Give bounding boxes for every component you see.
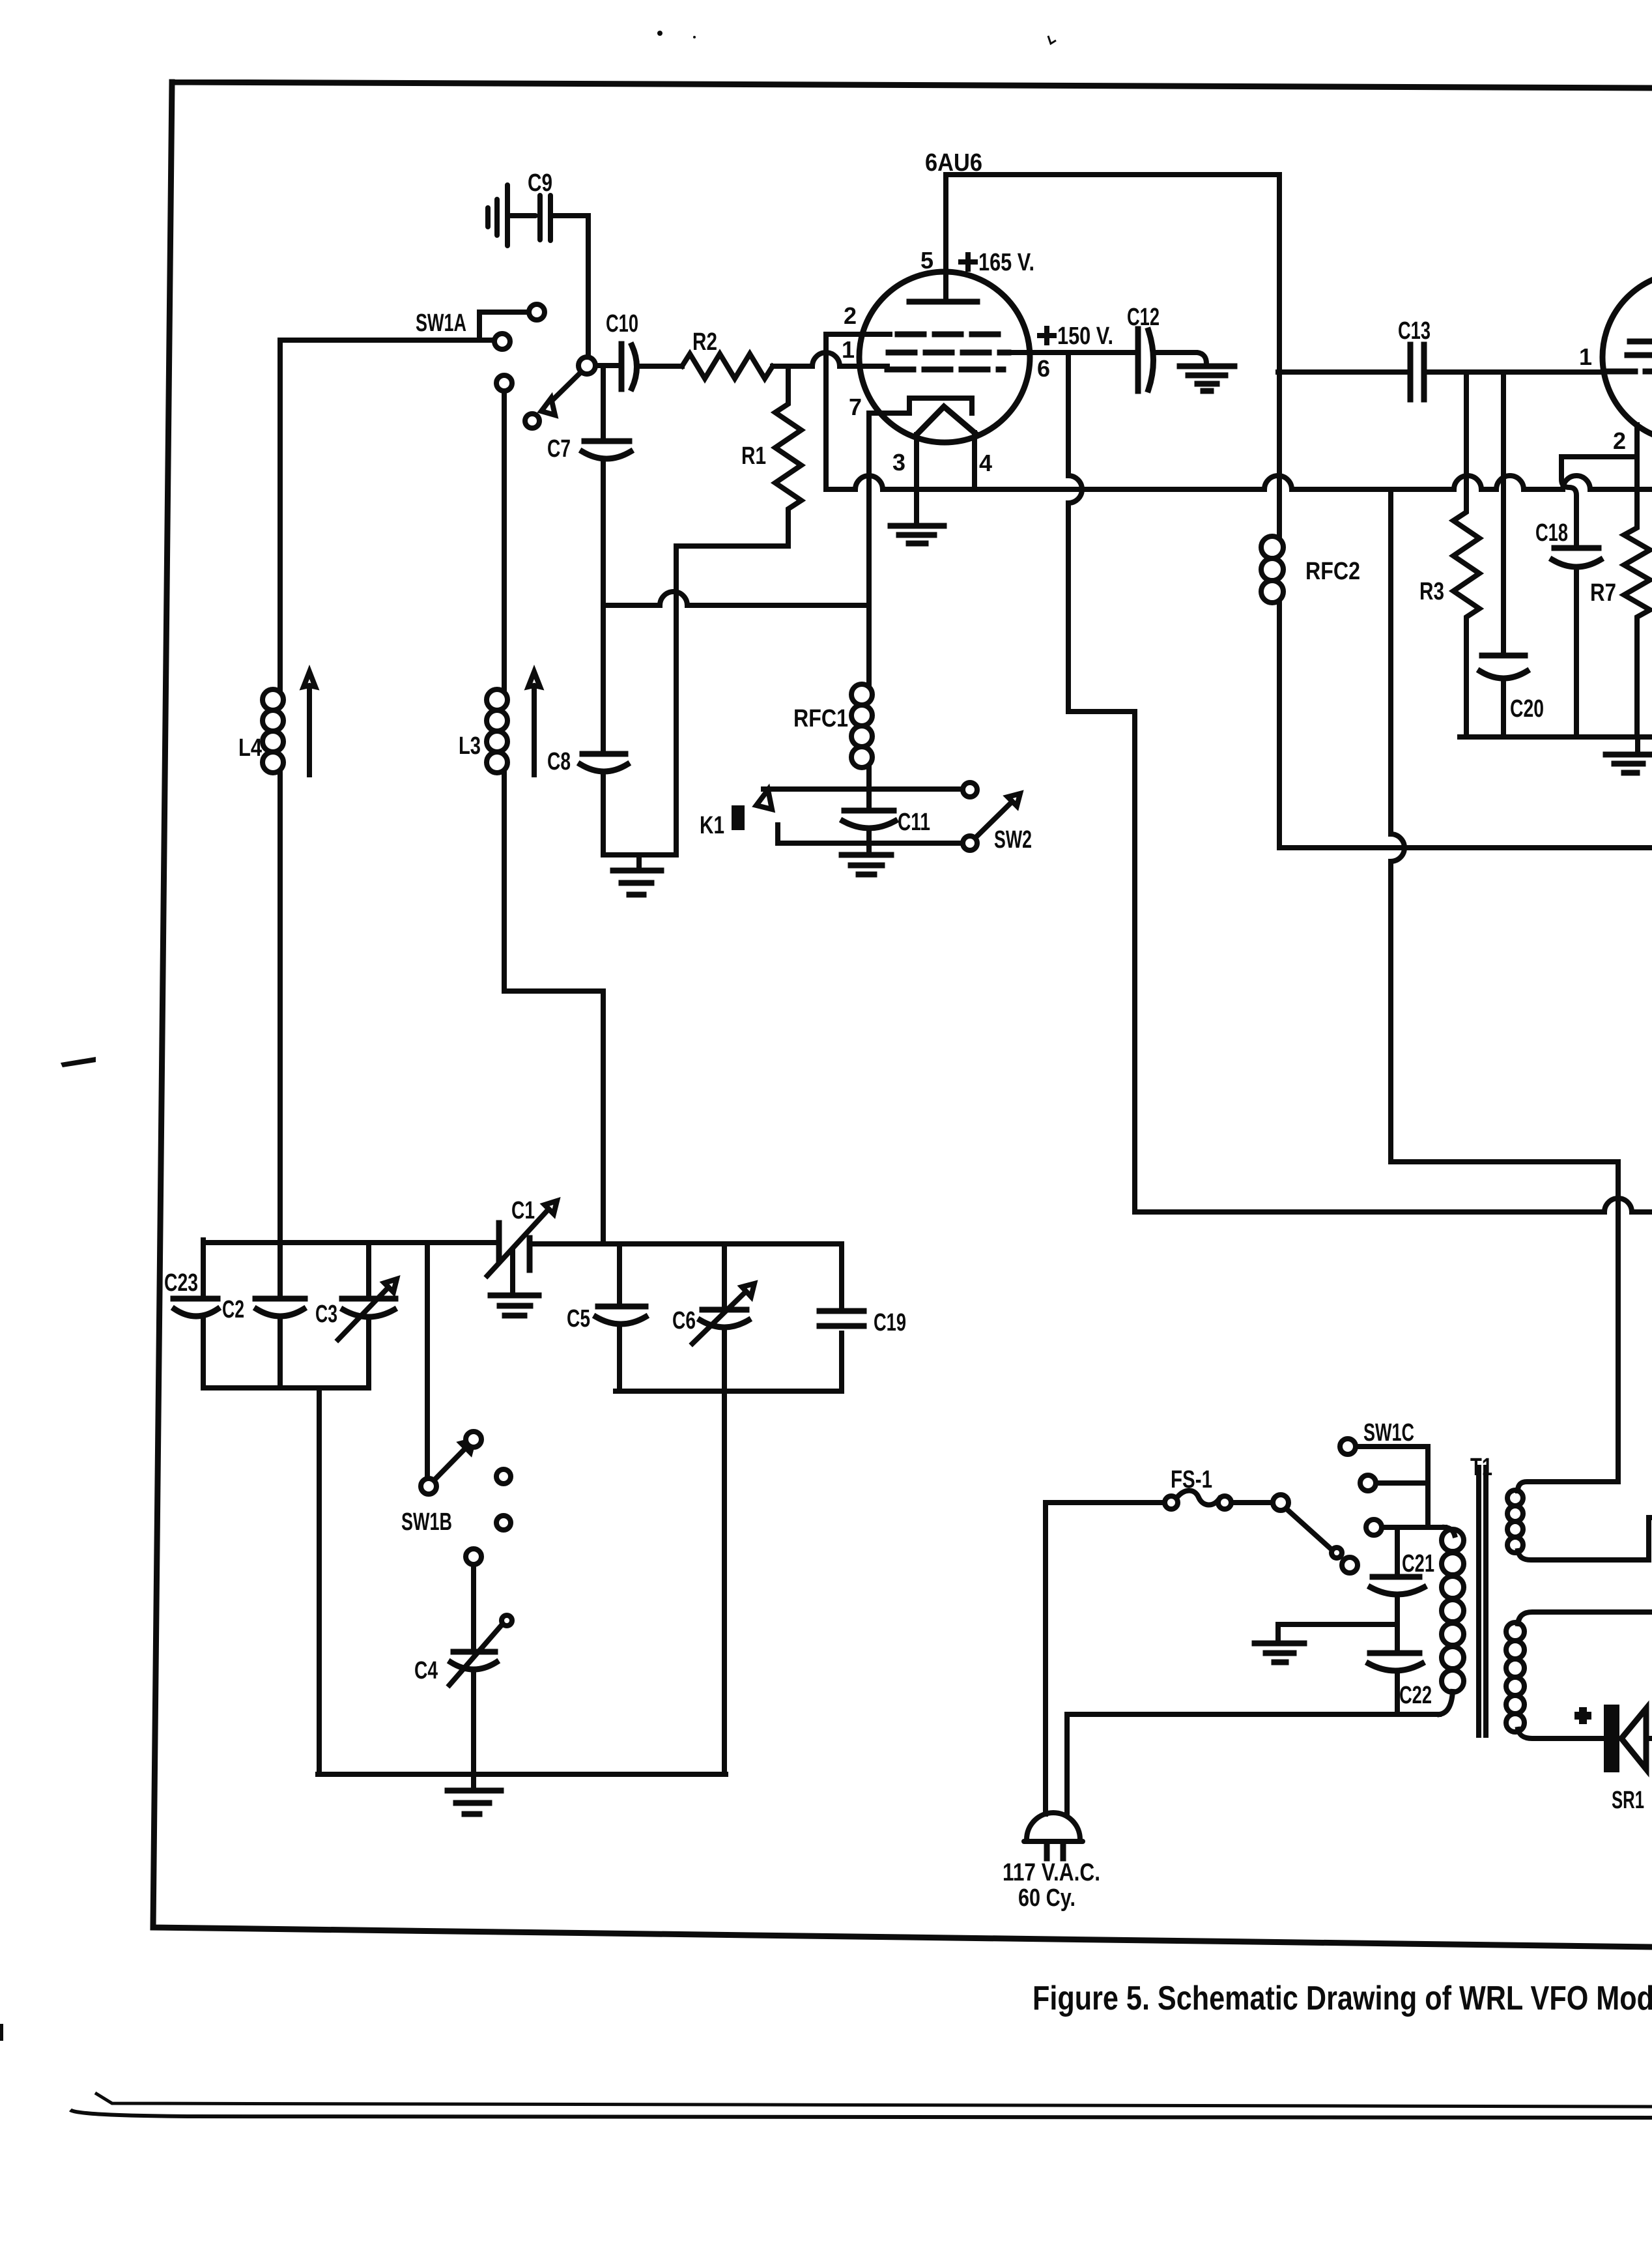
svg-text:C20: C20 xyxy=(1510,695,1544,723)
wire: SW1C to C21 xyxy=(1395,1528,1400,1574)
wire: C13 to V2 grid xyxy=(1429,369,1602,375)
tube V2 envelope (partial) xyxy=(1602,272,1652,442)
svg-text:SW1A: SW1A xyxy=(416,310,466,337)
transformer T1 heater winding xyxy=(1507,1490,1652,1560)
transformer T1 HV winding xyxy=(1506,1612,1652,1738)
pin labels V2 xyxy=(1579,343,1626,454)
svg-text:C3: C3 xyxy=(315,1301,337,1328)
wire: V2 pin 2 lead xyxy=(1634,425,1640,457)
plate of U1 xyxy=(909,299,977,305)
wire: tank bottom ground bus xyxy=(318,1772,726,1777)
svg-text:C22: C22 xyxy=(1399,1682,1432,1709)
svg-text:RFC2: RFC2 xyxy=(1305,558,1360,585)
wire: pin 3 cathode to ground xyxy=(914,435,919,521)
svg-text:L3: L3 xyxy=(459,732,481,760)
capacitor C22 xyxy=(1369,1653,1432,1714)
capacitor C9 xyxy=(488,169,552,246)
wire: pin 6 to C12 xyxy=(1008,350,1134,355)
capacitor C8 xyxy=(547,748,627,775)
svg-text:2: 2 xyxy=(844,302,857,329)
wire: pin 4 heater to bus xyxy=(972,433,977,489)
pin labels U1 xyxy=(842,247,1050,476)
wire: SW1A to L4 xyxy=(280,340,494,689)
svg-text:C7: C7 xyxy=(547,435,571,463)
svg-text:Figure 5. Schematic Drawing of: Figure 5. Schematic Drawing of WRL VFO M… xyxy=(1032,1980,1652,2017)
svg-text:C9: C9 xyxy=(528,169,552,197)
capacitor C10 xyxy=(606,310,638,389)
inductor RFC1 xyxy=(793,684,872,768)
wire: L4 to tank (C2 line) xyxy=(278,773,283,1299)
wire: V2 pin2 branch to C18 xyxy=(1561,457,1635,545)
transformer T1 core xyxy=(1470,1454,1492,1735)
wire: grid ground bus xyxy=(603,852,676,857)
svg-text:117 V.A.C.: 117 V.A.C. xyxy=(1003,1859,1100,1886)
capacitor C13 xyxy=(1398,317,1431,399)
wire: bottom bias bus xyxy=(1460,734,1652,740)
svg-text:C5: C5 xyxy=(567,1305,590,1333)
wire: keying line from bus to heater winding xyxy=(1391,489,1618,1491)
rectifier SR1 xyxy=(1574,1705,1652,1814)
switch SW1C xyxy=(1273,1419,1445,1573)
svg-text:6: 6 xyxy=(1037,355,1050,382)
tube U1 6AU6 envelope xyxy=(859,149,1030,442)
resistor R7 xyxy=(1590,425,1650,737)
wire: SW1B feed from bus xyxy=(425,1244,430,1479)
svg-text:5: 5 xyxy=(920,247,933,274)
arrow beside L3 xyxy=(528,672,540,775)
svg-text:R1: R1 xyxy=(741,442,766,470)
svg-text:1: 1 xyxy=(1579,343,1592,370)
wire: RFC1 to C11 node xyxy=(866,768,872,811)
svg-text:FS-1: FS-1 xyxy=(1171,1466,1212,1493)
svg-text:C11: C11 xyxy=(898,809,930,836)
svg-text:7: 7 xyxy=(849,394,862,420)
inductor RFC2 xyxy=(1261,175,1360,848)
svg-text:C19: C19 xyxy=(874,1309,906,1336)
wire: C7 to C8 xyxy=(601,459,606,753)
svg-text:K1: K1 xyxy=(700,812,724,839)
svg-text:T1: T1 xyxy=(1470,1454,1492,1481)
capacitor C6 (trimmer) xyxy=(672,1244,754,1344)
capacitor C5 xyxy=(567,1244,646,1391)
wire: SW1A to L3 xyxy=(502,391,507,689)
resistor R3 xyxy=(1419,372,1479,737)
svg-text:C21: C21 xyxy=(1402,1550,1434,1578)
svg-text:R2: R2 xyxy=(692,328,717,356)
ground: C11 xyxy=(842,855,891,874)
wire: main heater/keying bus with hops xyxy=(826,476,1652,489)
svg-text:60 Cy.: 60 Cy. xyxy=(1018,1884,1075,1912)
grid rows of U1 xyxy=(887,334,1008,369)
capacitor C20 xyxy=(1480,372,1544,737)
wire: plate line to C13 xyxy=(1278,369,1405,375)
wire: L3 down and over to tank bus xyxy=(504,773,603,1243)
wire: tank top bus right xyxy=(532,1241,842,1246)
suppressor/shield bar of U1 (pin 7) xyxy=(869,398,972,413)
capacitor C12 xyxy=(1127,304,1160,391)
capacitor C19 xyxy=(819,1244,906,1391)
capacitor C1 (main tuning) xyxy=(487,1197,557,1276)
wire: pin2 lead down to heater bus xyxy=(826,334,890,489)
svg-text:C4: C4 xyxy=(414,1657,438,1684)
svg-text:C8: C8 xyxy=(547,748,571,775)
wire: C6 through box to ground bus xyxy=(722,1327,727,1774)
capacitor C2 xyxy=(222,1296,305,1388)
ground: U1 cathode xyxy=(890,526,944,543)
svg-text:C23: C23 xyxy=(164,1269,198,1297)
capacitor C18 xyxy=(1535,519,1601,737)
svg-text:R3: R3 xyxy=(1419,578,1444,605)
wire: C12 to ground xyxy=(1154,353,1206,364)
capacitor C4 (trimmer) xyxy=(414,1564,512,1774)
wire: K1 tip line to SW2 xyxy=(763,786,962,792)
resistor R1 xyxy=(741,368,801,546)
cathode of U1 xyxy=(915,407,975,436)
wire: plate lead to top rail xyxy=(946,175,1279,300)
svg-text:SW2: SW2 xyxy=(994,826,1032,854)
grid rows of V2 xyxy=(1609,341,1652,371)
svg-text:C6: C6 xyxy=(672,1307,696,1334)
resistor R2 xyxy=(682,328,773,379)
ground: C12 xyxy=(1180,366,1234,391)
wire: left box to bottom ground bus xyxy=(317,1388,322,1774)
ground: C21/C22 midpoint xyxy=(1255,1624,1397,1662)
transformer T1 primary winding xyxy=(1440,1527,1464,1714)
svg-text:SW1C: SW1C xyxy=(1363,1419,1414,1447)
wire: output line to page edge xyxy=(1279,845,1652,850)
svg-text:RFC1: RFC1 xyxy=(793,705,848,732)
wire: R1 bottom to ground bus xyxy=(676,546,788,855)
wire: AC hot to fuse xyxy=(1046,1503,1165,1814)
wire: C8 to ground bus xyxy=(601,771,606,855)
capacitor C21 xyxy=(1371,1550,1434,1650)
jack K1 xyxy=(700,790,772,839)
inductor L4 xyxy=(238,689,283,773)
label +165 V. xyxy=(961,249,1034,276)
switch SW1A xyxy=(416,304,595,428)
wire: fuse to SW1C arm xyxy=(1231,1500,1272,1505)
inductor L3 xyxy=(459,689,507,773)
wire: node to C10 and C10 to R2 xyxy=(595,366,682,366)
svg-text:1: 1 xyxy=(842,336,855,363)
arrow beside L4 xyxy=(304,672,315,775)
wire: K1 sleeve line to SW2 xyxy=(778,825,962,843)
wire: C9 to SW1A common node xyxy=(554,216,588,356)
ground: C1 xyxy=(491,1295,539,1316)
wire: +150 node down, around bus, to B+ rail xyxy=(1068,353,1652,1212)
wire: tank top bus left xyxy=(203,1240,498,1245)
AC plug xyxy=(1003,1813,1100,1912)
svg-text:4: 4 xyxy=(979,450,992,476)
svg-text:2: 2 xyxy=(1613,427,1626,454)
ground: bias network xyxy=(1606,737,1651,773)
svg-text:C1: C1 xyxy=(511,1197,535,1224)
wire: right tank box bottom xyxy=(616,1389,842,1394)
svg-text:SW1B: SW1B xyxy=(401,1508,452,1536)
svg-text:SR1: SR1 xyxy=(1612,1787,1644,1814)
ground: tank xyxy=(448,1774,501,1814)
wire: R2 to grid, hop over pin2 lead xyxy=(773,353,887,366)
ground: grid circuit xyxy=(613,855,661,895)
svg-text:165 V.: 165 V. xyxy=(978,249,1034,276)
wire: C1 rotor to ground xyxy=(510,1250,515,1292)
wire: C8 line to RFC1 line with hop over R1 leg xyxy=(603,592,869,605)
svg-text:C18: C18 xyxy=(1535,519,1568,547)
switch SW1B xyxy=(401,1432,511,1564)
svg-text:L4: L4 xyxy=(238,734,262,762)
capacitor C7 xyxy=(547,368,631,463)
capacitor C11 xyxy=(843,809,930,855)
label +150 V. xyxy=(1040,323,1113,350)
wire: left tank box bottom xyxy=(203,1385,369,1391)
svg-text:3: 3 xyxy=(892,449,905,476)
capacitor C23 xyxy=(164,1240,218,1388)
svg-text:R7: R7 xyxy=(1590,579,1616,607)
svg-text:150 V.: 150 V. xyxy=(1057,323,1113,350)
svg-text:C12: C12 xyxy=(1127,304,1160,331)
switch SW2 xyxy=(963,783,1032,854)
fuse FS-1 xyxy=(1165,1466,1231,1509)
wire: AC neutral line xyxy=(1067,1714,1439,1814)
wire: pin 7 down to RFC1 xyxy=(866,413,872,684)
bottom page rules xyxy=(95,2093,1652,2107)
svg-text:C13: C13 xyxy=(1398,317,1431,345)
svg-text:C10: C10 xyxy=(606,310,638,338)
capacitor C3 (trimmer) xyxy=(315,1244,397,1388)
svg-text:C2: C2 xyxy=(222,1296,244,1323)
